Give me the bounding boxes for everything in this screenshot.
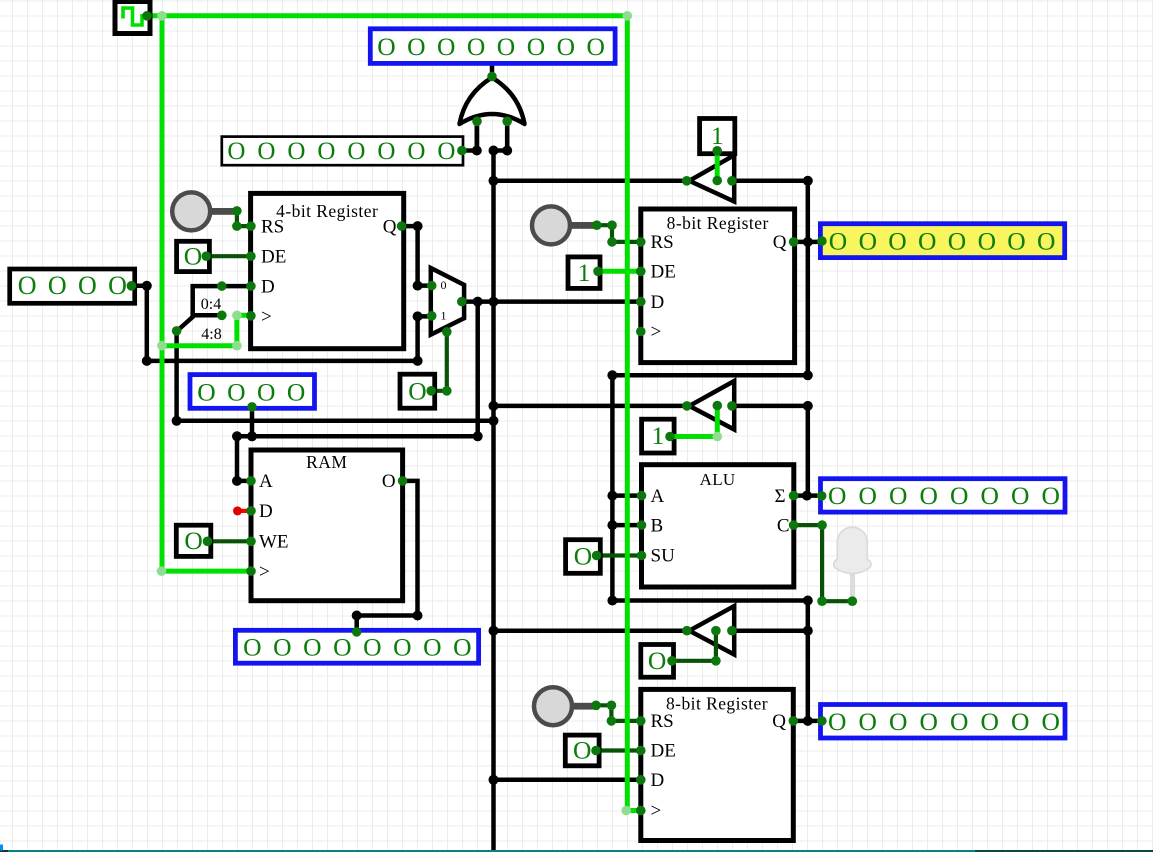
node U3 RS pin bbox=[246, 221, 256, 231]
register U2 body (8-bit Register) bbox=[641, 209, 795, 363]
svg-text:O: O bbox=[393, 633, 411, 662]
wire input I4 to ALU SU bbox=[597, 553, 642, 557]
node display D6 join bbox=[247, 431, 257, 441]
node OR output bbox=[487, 72, 497, 82]
wire splitter combined to bus bbox=[177, 331, 494, 421]
wire OR input B stub bbox=[505, 121, 510, 150]
svg-text:D: D bbox=[259, 501, 273, 522]
node U6 enable bbox=[711, 626, 721, 636]
wire OR input A stub bbox=[475, 121, 480, 150]
svg-text:O: O bbox=[287, 377, 305, 406]
input I3 (enable=1) bbox=[642, 419, 675, 453]
wire buffer U1 input to right riser bbox=[612, 181, 807, 721]
wire button S2 to reg U2 RS bbox=[597, 225, 641, 242]
input IN8 (8-bit word) bbox=[222, 137, 463, 166]
svg-text:O: O bbox=[303, 633, 321, 662]
node I2 pin bbox=[593, 267, 603, 277]
svg-text:O: O bbox=[453, 633, 471, 662]
node D2 pin bbox=[817, 236, 827, 246]
wire mux-out riser to RAM A row bbox=[237, 302, 478, 481]
svg-text:RS: RS bbox=[651, 711, 674, 732]
node U5 WE pin bbox=[246, 537, 256, 547]
wire clock branch to reg U3 clk bbox=[162, 315, 251, 345]
node U3 DE pin bbox=[246, 251, 256, 261]
node U8 Sigma pin bbox=[789, 491, 799, 501]
svg-text:O: O bbox=[573, 736, 591, 765]
svg-text:O: O bbox=[919, 481, 937, 510]
node U8 A pin bbox=[637, 491, 647, 501]
node I9 pin bbox=[426, 386, 436, 396]
svg-text:O: O bbox=[108, 271, 127, 300]
node bus / buffer U6 row bbox=[489, 626, 499, 636]
svg-text:O: O bbox=[408, 376, 426, 405]
svg-text:O: O bbox=[287, 138, 305, 165]
svg-text:O: O bbox=[889, 481, 907, 510]
wire OR-B stub to main bus bbox=[494, 121, 508, 150]
wire input I3 to buffer U4 enable bbox=[670, 406, 717, 437]
svg-text:O: O bbox=[257, 138, 275, 165]
node IN4 output pin bbox=[127, 281, 137, 291]
svg-text:RS: RS bbox=[651, 232, 674, 253]
node left riser corner1 bbox=[607, 370, 617, 380]
svg-text:1: 1 bbox=[441, 308, 447, 322]
node clock branch elbow bbox=[232, 311, 242, 321]
node U1 enable bbox=[712, 176, 722, 186]
node U7 DE pin bbox=[636, 746, 646, 756]
node D6 pin bbox=[247, 402, 257, 412]
node U5 clk pin bbox=[246, 566, 256, 576]
node U8 SU pin bbox=[637, 551, 647, 561]
input I1 (enable=1) bbox=[700, 119, 735, 154]
node right riser top bbox=[803, 176, 813, 186]
alu U8 body bbox=[642, 465, 794, 587]
node bus / splitter row bbox=[489, 416, 499, 426]
led L1 bbox=[834, 527, 871, 600]
node U2 RS pin bbox=[636, 237, 646, 247]
node IN8 output pin bbox=[457, 146, 467, 156]
svg-text:1: 1 bbox=[652, 421, 665, 450]
svg-text:O: O bbox=[829, 227, 847, 256]
node IN4 elbow bbox=[142, 281, 152, 291]
node U3 clk pin bbox=[246, 311, 256, 321]
svg-text:O: O bbox=[978, 227, 996, 256]
input I8 (DE=0) bbox=[177, 241, 210, 271]
svg-text:O: O bbox=[1011, 481, 1029, 510]
svg-text:8-bit Register: 8-bit Register bbox=[667, 213, 769, 233]
node D4 pin bbox=[817, 716, 827, 726]
svg-text:O: O bbox=[257, 377, 275, 406]
svg-text:4-bit Register: 4-bit Register bbox=[276, 201, 378, 221]
wire buffer U4 input to Sigma riser bbox=[732, 406, 808, 496]
node C elbow2 bbox=[817, 596, 827, 606]
wire reg U7 Q to display bbox=[793, 719, 821, 724]
wire ALU Sigma to display bbox=[794, 493, 821, 498]
wire bus to reg U7 D pin bbox=[494, 778, 641, 783]
svg-text:O: O bbox=[918, 227, 936, 256]
input I7 (WE=0) bbox=[176, 525, 211, 556]
node M1 output bbox=[457, 297, 467, 307]
svg-text:O: O bbox=[467, 32, 485, 61]
node OR-B elbow bbox=[502, 146, 512, 156]
svg-text:DE: DE bbox=[651, 741, 676, 762]
tristate buffer U6 bbox=[689, 606, 734, 655]
output display D6 (4-bit) bbox=[190, 375, 315, 409]
svg-text:O: O bbox=[1041, 707, 1059, 736]
node S3 pin bbox=[591, 701, 601, 711]
output display D1 (bus value) bbox=[370, 29, 615, 64]
register U3 body (4-bit Register) bbox=[251, 193, 404, 348]
node I3 elbow bbox=[713, 432, 723, 442]
svg-text:O: O bbox=[78, 271, 97, 300]
svg-text:A: A bbox=[259, 471, 273, 492]
node U8 B pin bbox=[637, 520, 647, 530]
wire clock left riser bbox=[160, 16, 165, 571]
node M1 select bbox=[442, 327, 452, 337]
node U1 output bbox=[682, 176, 692, 186]
node RAM A elbow bbox=[232, 476, 242, 486]
node splitter foot corner bbox=[172, 416, 182, 426]
node left riser corner2 bbox=[607, 596, 617, 606]
input I9 (sel=0) bbox=[400, 374, 435, 408]
node SP1 combined pin bbox=[172, 326, 182, 336]
svg-text:D: D bbox=[651, 770, 665, 791]
wire OR output stub bbox=[490, 61, 495, 77]
input I2 (DE=1) bbox=[568, 257, 600, 289]
svg-text:O: O bbox=[948, 227, 966, 256]
svg-text:O: O bbox=[48, 271, 67, 300]
svg-text:O: O bbox=[437, 138, 455, 165]
node bus / buffer U1 row bbox=[489, 176, 499, 186]
node U2 Q pin bbox=[789, 237, 799, 247]
node clock right corner bbox=[623, 11, 633, 21]
node mux-1 riser top bbox=[413, 311, 423, 321]
svg-text:>: > bbox=[651, 322, 662, 343]
node I4 pin bbox=[592, 551, 602, 561]
button S1 bbox=[172, 192, 237, 230]
svg-text:O: O bbox=[227, 138, 245, 165]
node U5 O pin bbox=[398, 476, 408, 486]
svg-text:O: O bbox=[980, 481, 998, 510]
output display D4 (reg U7 Q) bbox=[821, 705, 1066, 739]
node Q3 elbow bottom bbox=[413, 281, 423, 291]
node OR-A elbow bbox=[472, 146, 482, 156]
wire input I7 to RAM WE bbox=[208, 539, 252, 543]
node clock branch U3 bbox=[157, 341, 167, 351]
node S2 elbow1 bbox=[607, 220, 617, 230]
node clock output bbox=[142, 11, 152, 21]
svg-text:O: O bbox=[407, 138, 425, 165]
node clock branch corner bbox=[232, 341, 242, 351]
node U2 DE pin bbox=[636, 267, 646, 277]
svg-text:1: 1 bbox=[578, 258, 591, 287]
node U4 input bbox=[727, 401, 737, 411]
node S1 pin bbox=[232, 206, 242, 216]
node I1 pin bbox=[712, 146, 722, 156]
wire bus to buffer U6 output row bbox=[494, 628, 688, 633]
svg-text:C: C bbox=[777, 515, 790, 536]
splitter SP1 bbox=[178, 286, 222, 330]
node right riser corner1 bbox=[803, 370, 813, 380]
node mux-1 riser foot bbox=[413, 356, 423, 366]
svg-text:A: A bbox=[651, 486, 665, 507]
wire main bus vertical bbox=[491, 151, 496, 852]
node right riser corner2 bbox=[803, 596, 813, 606]
wire clock top run bbox=[147, 13, 627, 18]
node bus / buffer U4 row bbox=[489, 401, 499, 411]
node LED pin bbox=[848, 596, 858, 606]
node U8 C pin bbox=[789, 520, 799, 530]
node U7 D pin bbox=[636, 775, 646, 785]
svg-text:O: O bbox=[574, 542, 592, 571]
svg-text:O: O bbox=[347, 138, 365, 165]
button S2 bbox=[532, 206, 597, 244]
node M1 input 0 bbox=[427, 281, 437, 291]
wire mux output / bus to reg U2 D row bbox=[462, 299, 641, 304]
wire input I2 to reg U2 DE bbox=[598, 269, 641, 274]
input I4 (SU=0) bbox=[566, 540, 601, 574]
svg-text:0:4: 0:4 bbox=[201, 296, 221, 313]
svg-text:O: O bbox=[1037, 227, 1055, 256]
wire riser to ALU B pin bbox=[612, 523, 641, 528]
svg-text:RAM: RAM bbox=[306, 452, 347, 472]
svg-text:O: O bbox=[184, 242, 202, 271]
wire unconnected stub at RAM D bbox=[238, 509, 252, 513]
svg-text:>: > bbox=[259, 561, 270, 582]
svg-text:D: D bbox=[651, 292, 665, 313]
node U7 RS pin bbox=[636, 716, 646, 726]
svg-text:O: O bbox=[950, 707, 968, 736]
wire input I9 to mux select bbox=[431, 332, 447, 391]
wire bus to buffer U4 output row bbox=[494, 404, 688, 409]
node C elbow1 bbox=[817, 520, 827, 530]
ram U5 body bbox=[251, 450, 403, 601]
input I5 (enable=0) bbox=[641, 645, 674, 678]
svg-text:1: 1 bbox=[711, 121, 724, 150]
output display D2 (reg U2 Q, selected) bbox=[820, 224, 1064, 258]
svg-text:RS: RS bbox=[261, 216, 284, 237]
svg-text:O: O bbox=[377, 32, 395, 61]
node D5 pin bbox=[352, 627, 362, 637]
svg-text:SU: SU bbox=[651, 546, 676, 567]
node mux-out riser top bbox=[473, 297, 483, 307]
svg-text:O: O bbox=[363, 633, 381, 662]
svg-text:O: O bbox=[437, 32, 455, 61]
wire display D6 stub bbox=[250, 408, 255, 436]
wire button S3 to reg U7 RS bbox=[596, 705, 641, 721]
wire riser to ALU A pin bbox=[612, 493, 641, 498]
node S2 elbow2 bbox=[607, 237, 617, 247]
node I5 elbow bbox=[711, 656, 721, 666]
node clock tee bbox=[157, 11, 167, 21]
node U6 input bbox=[727, 626, 737, 636]
node red stub end bbox=[233, 506, 242, 515]
tristate buffer U4 bbox=[689, 381, 734, 430]
svg-text:O: O bbox=[586, 32, 604, 61]
svg-text:O: O bbox=[197, 377, 215, 406]
node U1 input bbox=[727, 176, 737, 186]
svg-text:O: O bbox=[950, 481, 968, 510]
svg-text:D: D bbox=[261, 276, 275, 297]
node RAM O corner1 bbox=[413, 611, 423, 621]
svg-text:O: O bbox=[828, 481, 846, 510]
node bus top bbox=[489, 146, 499, 156]
wire buffer U6 input stub bbox=[732, 628, 808, 633]
node clock U7 end bbox=[621, 806, 631, 816]
node U7 Q pin bbox=[789, 716, 799, 726]
wire reg U2 Q to display bbox=[794, 240, 821, 245]
node display D1 pin bbox=[487, 56, 497, 66]
svg-text:4:8: 4:8 bbox=[201, 326, 221, 343]
wire splitter 0:4 branch to reg U3 D bbox=[193, 284, 251, 289]
node bus / D row bbox=[489, 297, 499, 307]
svg-text:O: O bbox=[828, 707, 846, 736]
svg-text:O: O bbox=[888, 227, 906, 256]
node RAM O corner2 bbox=[352, 611, 362, 621]
wire input IN4 to mux-1 row bbox=[131, 286, 430, 361]
svg-text:O: O bbox=[243, 633, 261, 662]
node U2 clk pin bbox=[636, 327, 646, 337]
bottom status bar bbox=[0, 845, 1153, 852]
button S3 bbox=[534, 687, 599, 725]
node right riser / Q3 bbox=[803, 716, 813, 726]
svg-text:O: O bbox=[1007, 227, 1025, 256]
node S3 elbow2 bbox=[607, 716, 617, 726]
node right riser / Q1 bbox=[803, 237, 813, 247]
output display D3 (ALU Sigma) bbox=[821, 479, 1066, 512]
svg-text:O: O bbox=[273, 633, 291, 662]
node U5 D pin bbox=[246, 506, 256, 516]
tristate buffer U1 bbox=[689, 155, 734, 201]
node I7 pin bbox=[203, 537, 213, 547]
wire RAM O to display D5 bbox=[357, 481, 418, 632]
node RAM A row corner bbox=[232, 431, 242, 441]
svg-text:O: O bbox=[889, 707, 907, 736]
node U6 output bbox=[682, 626, 692, 636]
node M1 input 1 bbox=[427, 311, 437, 321]
svg-text:O: O bbox=[407, 32, 425, 61]
input I6 (DE=0) bbox=[565, 735, 599, 766]
node IN4 corner bbox=[142, 356, 152, 366]
clock CLK1 bbox=[115, 2, 150, 34]
node U5 A pin bbox=[246, 476, 256, 486]
svg-text:Q: Q bbox=[773, 232, 787, 253]
node SP1 branch 0:4 pin bbox=[217, 281, 227, 291]
node U7 clk pin bbox=[636, 806, 646, 816]
node U3 Q pin bbox=[397, 221, 407, 231]
svg-text:0: 0 bbox=[441, 278, 447, 292]
wire ALU C to LED bbox=[794, 525, 853, 601]
node I8 pin bbox=[202, 251, 212, 261]
node I6 pin bbox=[591, 746, 601, 756]
node U4 output bbox=[682, 401, 692, 411]
svg-text:O: O bbox=[423, 633, 441, 662]
wire clock to reg U7 clk bbox=[626, 808, 641, 813]
svg-text:O: O bbox=[648, 646, 666, 675]
register U7 body (8-bit Register) bbox=[641, 689, 794, 840]
svg-text:O: O bbox=[1011, 707, 1029, 736]
wire button S1 to reg U3 RS bbox=[237, 211, 251, 226]
node U3 D pin bbox=[246, 281, 256, 291]
node OR input B bbox=[502, 117, 512, 127]
node mux-out riser corner bbox=[473, 431, 483, 441]
wire input I6 to reg U7 DE bbox=[596, 748, 641, 752]
node left riser / ALU A bbox=[607, 491, 617, 501]
node SP1 branch 4:8 pin bbox=[217, 311, 227, 321]
node buffer U4 riser corner bbox=[803, 401, 813, 411]
svg-text:Σ: Σ bbox=[774, 486, 785, 507]
node I3 pin bbox=[665, 432, 675, 442]
wire bus to buffer U1 output row bbox=[494, 179, 687, 184]
svg-text:O: O bbox=[18, 271, 37, 300]
svg-text:O: O bbox=[980, 707, 998, 736]
svg-text:O: O bbox=[557, 32, 575, 61]
svg-text:O: O bbox=[858, 481, 876, 510]
node left riser / ALU B bbox=[607, 520, 617, 530]
node Sigma row junction bbox=[802, 491, 812, 501]
svg-text:8-bit Register: 8-bit Register bbox=[666, 694, 768, 714]
node right riser / buffer U6 row bbox=[803, 626, 813, 636]
node S2 pin bbox=[592, 220, 602, 230]
svg-text:O: O bbox=[497, 32, 515, 61]
svg-text:>: > bbox=[651, 801, 662, 822]
output display D5 (RAM O) bbox=[235, 630, 478, 663]
svg-text:DE: DE bbox=[261, 246, 286, 267]
node S1 elbow bbox=[232, 221, 242, 231]
mux M1 bbox=[431, 268, 464, 335]
node D3 pin bbox=[817, 491, 827, 501]
node U4 enable bbox=[713, 401, 723, 411]
svg-text:B: B bbox=[651, 515, 664, 536]
input IN4 (4-bit word) bbox=[10, 269, 135, 303]
svg-text:Q: Q bbox=[383, 216, 397, 237]
or-gate G1 bbox=[460, 78, 525, 125]
node S3 elbow1 bbox=[607, 701, 617, 711]
svg-text:ALU: ALU bbox=[700, 470, 736, 489]
wire clock to RAM clk bbox=[162, 569, 252, 574]
svg-text:O: O bbox=[333, 633, 351, 662]
node OR input A bbox=[472, 117, 482, 127]
node clock RAM end bbox=[157, 566, 167, 576]
svg-text:DE: DE bbox=[651, 262, 676, 283]
svg-text:O: O bbox=[377, 138, 395, 165]
svg-text:O: O bbox=[858, 707, 876, 736]
wire clock right riser bbox=[625, 16, 630, 811]
node bus / reg U7 D row bbox=[489, 775, 499, 785]
svg-text:O: O bbox=[317, 138, 335, 165]
svg-text:O: O bbox=[382, 471, 396, 492]
node U2 D pin bbox=[636, 297, 646, 307]
svg-text:Q: Q bbox=[772, 711, 786, 732]
node M1 select elbow bbox=[442, 386, 452, 396]
wire input I1 to buffer U1 enable bbox=[715, 151, 720, 181]
svg-text:O: O bbox=[919, 707, 937, 736]
svg-text:O: O bbox=[1041, 481, 1059, 510]
node Q3 elbow top bbox=[413, 221, 423, 231]
svg-text:O: O bbox=[527, 32, 545, 61]
svg-text:O: O bbox=[859, 227, 877, 256]
wire reg U3 Q to mux-0 bbox=[402, 226, 430, 286]
wire input I8 to reg U3 DE bbox=[206, 254, 250, 258]
wire input I5 to buffer U6 enable bbox=[672, 631, 716, 661]
svg-text:>: > bbox=[261, 307, 272, 328]
svg-text:WE: WE bbox=[259, 532, 289, 553]
svg-text:O: O bbox=[184, 526, 202, 555]
node I5 pin bbox=[667, 656, 677, 666]
wire input8 to OR-A elbow bbox=[462, 121, 477, 150]
svg-text:O: O bbox=[227, 377, 245, 406]
